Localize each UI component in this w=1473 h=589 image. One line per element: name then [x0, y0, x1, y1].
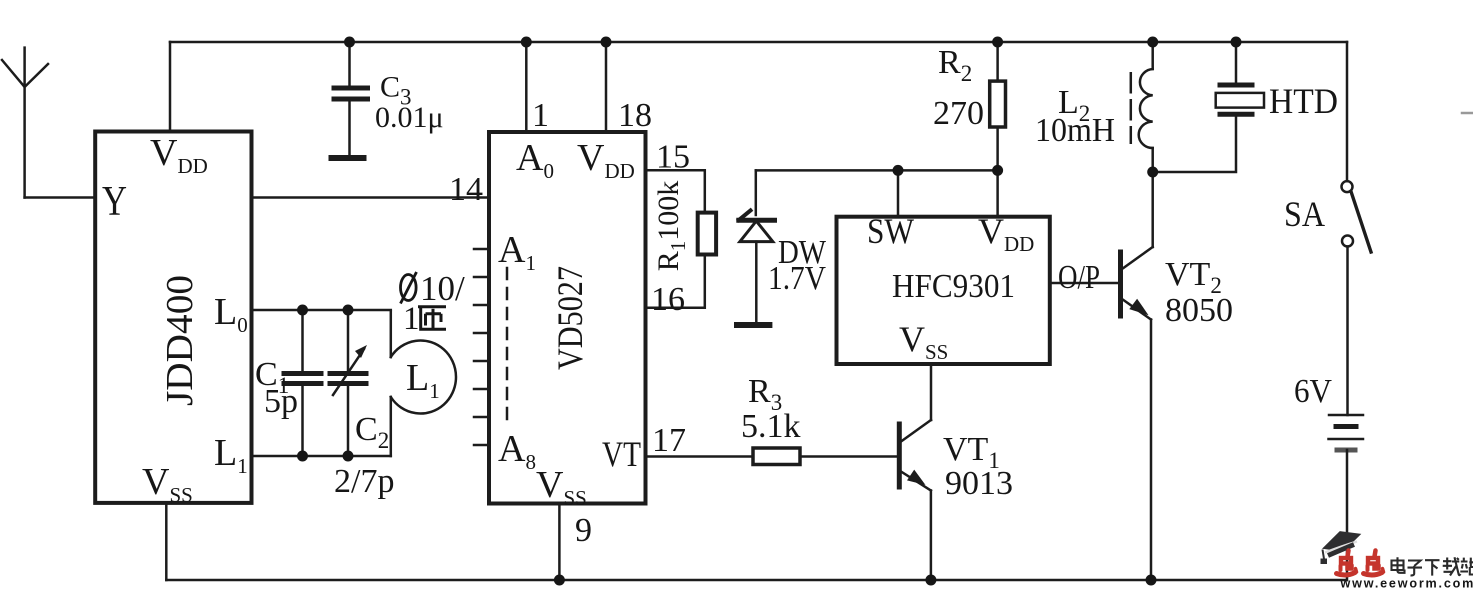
wire L0 net	[252, 309, 391, 312]
resistor R3	[753, 448, 800, 465]
junction node R2 top rail	[992, 37, 1003, 48]
svg-text:Y: Y	[102, 179, 127, 225]
ground C3	[332, 155, 364, 161]
capacitor C3	[334, 42, 368, 157]
junction node L2 top rail	[1147, 37, 1158, 48]
svg-text:18: 18	[618, 97, 652, 134]
wire O/P to VT2 base	[1050, 282, 1119, 285]
junction node pin18 rail	[601, 37, 612, 48]
watermark graduation cap	[1321, 531, 1362, 564]
svg-text:8050: 8050	[1165, 292, 1233, 329]
junction node R2/VDD	[992, 165, 1003, 176]
wire bottom rail	[166, 579, 1346, 582]
junction node C3/VDD rail	[344, 37, 355, 48]
resistor R1	[698, 213, 716, 255]
junction node SW	[893, 165, 904, 176]
svg-text:270: 270	[933, 95, 984, 132]
IC VD5027	[489, 132, 646, 504]
resistor R2	[990, 42, 1006, 170]
inductor L1 (single turn coil)	[391, 311, 456, 456]
IC JDD400	[95, 132, 251, 503]
transistor VT2	[1121, 172, 1153, 580]
dashed line A1..A8	[506, 268, 509, 422]
wire VDD pin HFC	[996, 170, 999, 216]
svg-text:2/7p: 2/7p	[334, 463, 394, 500]
wire VSS pin HFC to VT1 collector	[930, 364, 933, 420]
antenna	[2, 48, 48, 198]
svg-text:SA: SA	[1284, 194, 1325, 234]
svg-text:17: 17	[652, 422, 686, 459]
svg-text:www.eeworm.com: www.eeworm.com	[1340, 577, 1473, 589]
wire top rail	[170, 41, 1347, 44]
transistor VT1	[899, 420, 931, 580]
wire pin 18	[605, 42, 608, 132]
wire pin 14 JDD400 to VD5027	[252, 196, 490, 199]
svg-text:R1100k: R1100k	[652, 181, 690, 272]
switch SA	[1342, 42, 1372, 415]
svg-text:1: 1	[532, 97, 549, 134]
junction node L1/C2	[343, 451, 354, 462]
svg-text:5p: 5p	[264, 383, 298, 420]
wire R1 to pin 16	[645, 255, 705, 308]
ground DW	[737, 322, 769, 328]
svg-text:10mH: 10mH	[1035, 112, 1115, 149]
svg-text:HFC9301: HFC9301	[892, 268, 1015, 305]
capacitor C1	[284, 310, 321, 456]
svg-text:VT: VT	[602, 434, 641, 474]
svg-text:14: 14	[449, 171, 483, 208]
junction node pin9 ground rail	[554, 575, 565, 586]
junction node L1/C1	[297, 451, 308, 462]
artifact dash right edge	[1462, 112, 1473, 115]
IC HFC9301	[837, 217, 1050, 364]
svg-text:1: 1	[403, 301, 420, 337]
wire VDD drop to JDD400	[169, 42, 172, 132]
svg-text:1.7V: 1.7V	[768, 260, 826, 297]
svg-text:VD5027: VD5027	[550, 266, 590, 370]
battery 6V	[1329, 415, 1364, 580]
junction node L2/VT2 collector	[1147, 167, 1158, 178]
svg-text:SW: SW	[867, 211, 914, 251]
svg-text:15: 15	[656, 139, 690, 176]
pin ticks A2-A7	[474, 249, 489, 445]
junction node L0/C2	[343, 305, 354, 316]
wire SW pin	[897, 170, 900, 216]
svg-text:5.1k: 5.1k	[741, 408, 801, 445]
junction node HTD top rail	[1231, 37, 1242, 48]
junction node VT2 emitter rail	[1146, 575, 1157, 586]
inductor L2	[1131, 42, 1153, 172]
svg-text:9013: 9013	[945, 465, 1013, 502]
junction node VT1 emitter rail	[925, 575, 936, 586]
svg-text:0.01μ: 0.01μ	[375, 101, 444, 134]
wire DW to SW/VDD node	[756, 169, 998, 172]
junction node pin1 rail	[521, 37, 532, 48]
wire pin 1	[525, 42, 528, 132]
svg-text:9: 9	[575, 512, 592, 549]
watermark text dian zi xia zai zhan	[1392, 557, 1473, 575]
svg-text:HTD: HTD	[1269, 81, 1338, 121]
svg-text:O/P: O/P	[1058, 259, 1100, 296]
wire pin 15 to R1	[645, 170, 705, 212]
wire R3 to VT1 base	[800, 455, 897, 458]
buzzer HTD	[1153, 42, 1264, 172]
wire L1 net	[252, 455, 391, 458]
svg-text:6V: 6V	[1294, 373, 1332, 410]
wire pin 17 to R3	[645, 455, 753, 458]
junction node L0/C1	[297, 305, 308, 316]
watermark chongchong red bugs	[1337, 551, 1384, 576]
wire antenna to Y pin	[25, 196, 96, 199]
svg-text:16: 16	[651, 281, 685, 318]
wire pin 9 to bottom rail	[558, 504, 561, 581]
svg-text:10/: 10/	[420, 269, 465, 308]
label phi10/ (phi drawn)	[401, 272, 417, 304]
capacitor C2 (variable)	[330, 310, 367, 456]
zener diode DW	[739, 170, 775, 322]
svg-text:JDD400: JDD400	[159, 275, 201, 406]
wire VSS JDD400 to bottom rail	[165, 503, 168, 580]
